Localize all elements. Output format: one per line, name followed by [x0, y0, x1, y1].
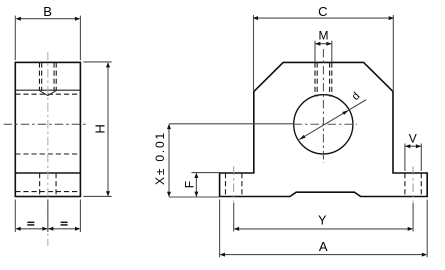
- dimension A label: [319, 239, 328, 254]
- side view clamp-screw hole drill point: [39, 91, 56, 96]
- svg-text:F: F: [182, 181, 196, 188]
- equal-spacing extension lines: [15, 200, 80, 233]
- svg-text:Y: Y: [318, 214, 327, 228]
- dimension C label: [318, 4, 327, 19]
- left mounting-bolt hole hidden lines: [226, 173, 242, 197]
- equal-spacing label left: [27, 222, 34, 226]
- front vertical centerline: [322, 49, 324, 163]
- dimension Y label: [318, 214, 327, 228]
- left bolt hole centerline: [233, 167, 235, 203]
- dimension V extension lines: [405, 144, 421, 171]
- dimension d leader line: [299, 100, 366, 140]
- dimension H label: [93, 124, 108, 133]
- dimension B label: [43, 4, 52, 19]
- side view mounting-bolt hole hidden lines: [40, 173, 56, 197]
- svg-text:C: C: [318, 4, 327, 19]
- side view bore bottom hidden line: [15, 153, 80, 155]
- svg-text:H: H: [93, 124, 108, 133]
- side view body outline: [15, 62, 80, 196]
- dimension X label: [153, 131, 167, 185]
- dimension F extension line: [192, 172, 219, 174]
- equal-spacing label right: [61, 222, 68, 226]
- dimension H line: [106, 62, 110, 196]
- side view flange top edge line: [15, 172, 80, 174]
- dimension Y extension lines: [234, 203, 413, 232]
- dimension F label: [182, 181, 196, 188]
- dimension M extension lines: [315, 41, 332, 62]
- side view chamfer edge line: [15, 89, 80, 91]
- side view clamp-screw hole hidden lines: [39, 62, 56, 90]
- dimension M line: [315, 42, 332, 46]
- dimension C line: [253, 16, 394, 20]
- dimension V label: [409, 132, 417, 146]
- dimension H extension lines: [83, 62, 111, 197]
- right bolt hole centerline: [412, 167, 414, 203]
- dimension V line: [405, 144, 421, 148]
- side view base groove hidden line: [15, 191, 80, 193]
- front view body outline: [220, 62, 428, 196]
- dimension A line: [220, 253, 427, 257]
- dimension A extension lines: [220, 200, 428, 258]
- svg-text:V: V: [409, 132, 417, 146]
- dimension M label: [319, 29, 329, 43]
- dimension Y line: [234, 227, 413, 231]
- dimension C extension lines: [254, 15, 394, 91]
- svg-text:M: M: [319, 29, 329, 43]
- front clamp-screw hole hidden lines: [315, 62, 332, 96]
- bore circle d: [294, 95, 353, 154]
- equal-spacing dimension lines: [16, 227, 81, 231]
- bore horizontal centerline: [294, 123, 358, 125]
- dimension d label: [350, 90, 363, 103]
- svg-text:B: B: [43, 4, 52, 19]
- dimension X extension lines: [169, 124, 293, 197]
- side view bore top hidden line: [15, 93, 80, 95]
- dimension X line: [167, 124, 171, 197]
- side view vertical centerline: [47, 52, 49, 246]
- dimension F line: [194, 173, 198, 197]
- svg-text:X± 0.01: X± 0.01: [153, 131, 167, 185]
- side view bore horizontal centerline: [4, 123, 89, 125]
- dimension B line: [16, 17, 81, 21]
- right mounting-bolt hole hidden lines: [405, 173, 421, 197]
- svg-text:A: A: [319, 239, 328, 254]
- dimension B extension lines: [15, 16, 80, 61]
